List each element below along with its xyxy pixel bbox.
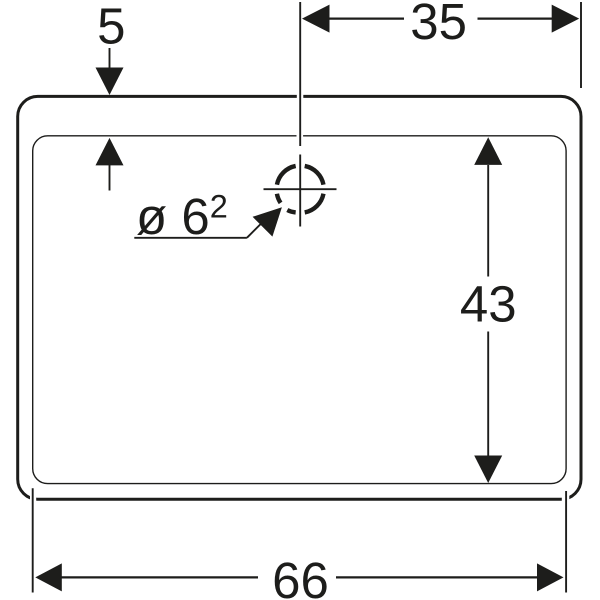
extension line from circle centre to top — [299, 2, 301, 146]
arrowhead 35 left — [302, 5, 330, 33]
svg-text:35: 35 — [410, 0, 467, 50]
arrowhead 5 up — [96, 138, 124, 166]
dimension line 35 (right segment) — [478, 18, 553, 20]
svg-text:5: 5 — [97, 0, 125, 55]
leader arrowhead — [253, 207, 282, 236]
centre cross horizontal line — [264, 188, 337, 190]
svg-text:66: 66 — [272, 552, 329, 600]
inner basin bowl (rounded rect) — [33, 136, 566, 484]
outer basin rim (rounded rect) — [18, 96, 581, 499]
dimension line 35 (left segment) — [329, 18, 404, 20]
gap mask: outer bottom edge at right extension line — [562, 495, 570, 505]
arrowhead 43 up — [474, 137, 502, 165]
gap mask: outer bottom edge at left extension line — [30, 495, 36, 505]
centre cross vertical line — [299, 155, 301, 227]
5-dim upper stem — [109, 48, 111, 69]
arrowhead 5 down — [96, 68, 124, 96]
extension line right (35 dim) — [580, 2, 582, 88]
dimension line 43 (upper segment) — [487, 165, 489, 277]
leader diagonal — [247, 213, 272, 238]
gap mask: inner top edge at centre line — [297, 133, 304, 140]
arrowhead 66 right — [537, 563, 564, 591]
dimension line 66 (left segment) — [62, 576, 259, 578]
svg-text:43: 43 — [460, 276, 517, 333]
extension line 66 left — [32, 488, 34, 592]
5-dim lower stem — [109, 165, 111, 191]
arrowhead 35 right — [552, 5, 580, 33]
dimension line 66 (right segment) — [336, 576, 538, 578]
extension line 66 right — [565, 491, 567, 593]
leader underline — [134, 237, 247, 239]
faucet hole circle (arcs with breaks at N,E,S,W,SW) — [277, 166, 324, 213]
dimension line 43 (lower segment) — [487, 332, 489, 457]
arrowhead 43 down — [474, 456, 502, 484]
gap mask: outer top edge at centre line — [297, 93, 304, 101]
arrowhead 66 left — [35, 563, 62, 591]
